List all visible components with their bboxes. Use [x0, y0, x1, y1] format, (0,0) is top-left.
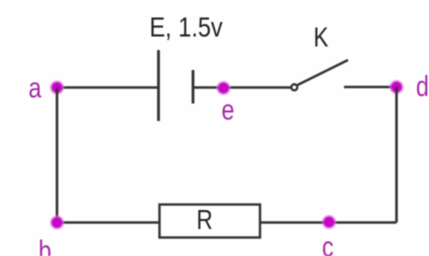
svg-text:b: b: [39, 234, 52, 256]
battery E long plate: [157, 50, 160, 121]
wire battery to switch: [193, 86, 291, 89]
node e: [216, 80, 232, 96]
node a: [49, 80, 65, 96]
wire a to battery: [57, 86, 158, 89]
left vertical wire a to b: [56, 88, 59, 223]
svg-text:a: a: [29, 71, 42, 104]
node c: [321, 214, 337, 230]
right vertical wire d to corner: [395, 87, 398, 223]
svg-text:e: e: [222, 93, 235, 126]
node b: [49, 215, 65, 231]
resistor R box: [160, 205, 261, 238]
wire switch to d: [344, 86, 397, 89]
node d: [389, 79, 405, 95]
svg-text:K: K: [314, 22, 329, 53]
switch K blade: [298, 60, 349, 85]
wire resistor to c to corner: [260, 221, 397, 224]
wire b to resistor: [57, 221, 159, 224]
svg-text:E, 1.5v: E, 1.5v: [150, 13, 223, 43]
svg-text:d: d: [416, 69, 429, 102]
svg-text:R: R: [197, 205, 213, 236]
svg-text:c: c: [322, 230, 334, 256]
battery E short plate: [192, 70, 195, 104]
switch K pivot: [291, 84, 297, 90]
